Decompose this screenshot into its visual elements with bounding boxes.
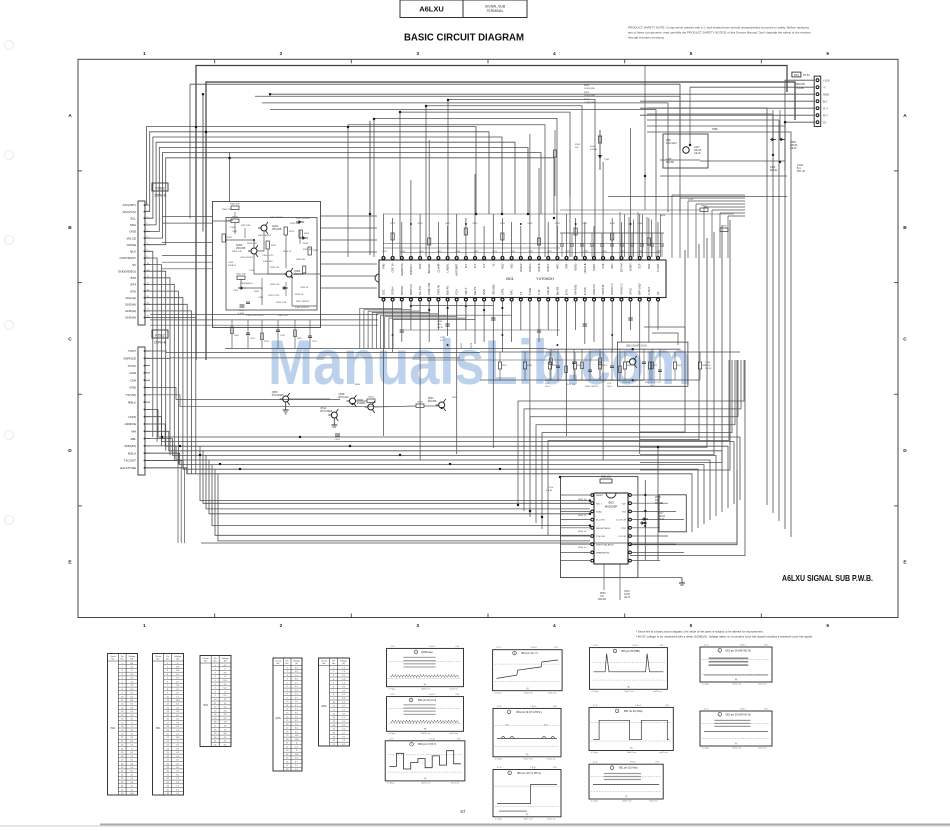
svg-text:R377: R377 — [461, 342, 463, 348]
svg-text:50mV 1 ms: 50mV 1 ms — [627, 752, 636, 754]
svg-text:(H): (H) — [424, 684, 427, 686]
svg-text:34: 34 — [121, 786, 123, 788]
resistor R545 — [428, 238, 431, 245]
svg-text:4.7: 4.7 — [130, 719, 133, 721]
svg-text:R550: R550 — [600, 593, 606, 595]
resistor — [231, 327, 234, 334]
svg-text:WHITE BALANCE: WHITE BALANCE — [596, 543, 614, 546]
svg-text:1 H-0.5: 1 H-0.5 — [630, 762, 636, 764]
svg-text:SPL-Y: SPL-Y — [464, 287, 468, 295]
wire IC pin — [419, 301, 421, 460]
junction — [501, 307, 503, 309]
svg-text:I501 pin 13 (-Y): I501 pin 13 (-Y) — [521, 652, 538, 655]
svg-text:P. MODE: P. MODE — [596, 536, 605, 538]
wire — [619, 564, 621, 600]
svg-text:8.0: 8.0 — [176, 774, 179, 776]
svg-text:(V): (V) — [526, 688, 529, 690]
svg-text:7: 7 — [333, 690, 334, 692]
wire — [321, 227, 378, 229]
svg-text:0.5V: 0.5V — [553, 706, 557, 708]
svg-text:ms/0.5 ms: ms/0.5 ms — [547, 818, 555, 820]
waveform 13 I501 pin 34 (YL PIP in) — [493, 767, 561, 820]
svg-text:(V): (V) — [295, 663, 298, 665]
svg-text:HPC: HPC — [555, 263, 559, 269]
svg-text:4: 4 — [167, 674, 168, 676]
svg-text:2.1: 2.1 — [224, 703, 227, 705]
svg-text:3: 3 — [122, 670, 123, 672]
waveform 12 I501 pin 26 (Hsw) — [589, 705, 673, 754]
svg-text:12: 12 — [333, 710, 335, 712]
wire — [145, 258, 157, 442]
wire — [292, 273, 320, 275]
svg-text:5.0: 5.0 — [295, 701, 298, 703]
svg-text:20: 20 — [121, 734, 123, 736]
svg-text:9.1: 9.1 — [130, 760, 133, 762]
wire — [447, 100, 449, 258]
svg-text:MS2000P: MS2000P — [605, 505, 617, 509]
wire — [360, 300, 402, 349]
svg-text:CTRL: CTRL — [500, 288, 504, 295]
svg-text:CLAMP: CLAMP — [436, 263, 440, 272]
svg-text:10: 10 — [121, 696, 123, 698]
wire IC pin — [657, 222, 659, 257]
cluster box Q510 — [617, 342, 688, 386]
svg-text:10: 10 — [167, 696, 169, 698]
svg-text:16: 16 — [121, 719, 123, 721]
svg-text:8.0: 8.0 — [295, 728, 298, 730]
svg-text:0.1 Vp-p: 0.1 Vp-p — [495, 758, 502, 760]
wire — [145, 271, 166, 451]
svg-text:R560: R560 — [355, 384, 361, 386]
svg-text:18: 18 — [121, 726, 123, 728]
wire — [150, 324, 378, 326]
wire — [561, 527, 591, 529]
component box right of I503 — [659, 495, 686, 532]
svg-text:0.2: 0.2 — [176, 719, 179, 721]
wire — [599, 349, 601, 380]
svg-text:1.2: 1.2 — [295, 694, 298, 696]
resistor R561 — [574, 228, 577, 235]
svg-text:W-CONT: W-CONT — [596, 520, 606, 522]
wire IC pin — [538, 168, 540, 257]
wire — [229, 152, 231, 202]
svg-text:21: 21 — [286, 743, 288, 745]
svg-text:No.: No. — [156, 659, 160, 661]
svg-text:16: 16 — [167, 719, 169, 721]
svg-text:8.0: 8.0 — [224, 672, 227, 674]
svg-text:9.1: 9.1 — [176, 678, 179, 680]
transistor Q506 — [339, 393, 357, 407]
svg-text:23: 23 — [167, 745, 169, 747]
wire — [660, 159, 700, 161]
resistor R311 10K — [237, 276, 245, 279]
wire bus — [145, 158, 554, 245]
svg-text:15: 15 — [121, 715, 123, 717]
svg-text:PCL/BJ: PCL/BJ — [796, 87, 805, 90]
wire corner — [640, 244, 699, 440]
junction — [465, 223, 467, 225]
wire — [632, 543, 677, 545]
svg-text:D306 1SS254: D306 1SS254 — [295, 307, 309, 309]
wire — [399, 112, 401, 257]
svg-text:4: 4 — [553, 51, 556, 57]
svg-text:0.2: 0.2 — [176, 707, 179, 709]
wire IC pin — [556, 226, 558, 257]
wire — [660, 175, 787, 177]
svg-text:CE-W: CE-W — [658, 519, 665, 521]
svg-text:MDL/BJ: MDL/BJ — [598, 599, 606, 601]
svg-text:No.: No. — [277, 663, 281, 665]
wire IC pin — [575, 218, 577, 257]
svg-text:YOUT: YOUT — [128, 349, 137, 353]
wire — [162, 261, 212, 263]
wire — [145, 284, 174, 460]
svg-text:B: B — [68, 225, 72, 231]
svg-text:12: 12 — [214, 707, 216, 709]
svg-text:3: 3 — [333, 675, 334, 677]
svg-text:R305 3.3K: R305 3.3K — [276, 302, 287, 304]
resistor R576 — [648, 362, 651, 369]
resistor — [565, 366, 568, 373]
capacitor C557 — [628, 317, 633, 319]
wire — [162, 216, 212, 218]
svg-text:R-Y: R-Y — [473, 263, 477, 268]
svg-text:6.2: 6.2 — [130, 707, 133, 709]
svg-text:1: 1 — [287, 667, 288, 669]
svg-text:6.2: 6.2 — [130, 771, 133, 773]
svg-text:15PG-B: 15PG-B — [154, 341, 167, 345]
svg-text:600 EL: 600 EL — [770, 169, 778, 172]
svg-text:16: 16 — [333, 725, 335, 727]
wire bus — [200, 465, 704, 524]
svg-text:NOISE: NOISE — [127, 243, 136, 247]
svg-text:GND: GND — [129, 230, 137, 234]
svg-text:0: 0 — [131, 722, 132, 724]
wire GND — [270, 93, 814, 95]
svg-text:TRAP-CW: TRAP-CW — [427, 282, 431, 295]
resistor R553 — [501, 233, 504, 240]
svg-text:0.5V: 0.5V — [764, 709, 768, 711]
svg-text:I501 pin 29 (VSYNC-N): I501 pin 29 (VSYNC-N) — [726, 713, 751, 716]
svg-text:2: 2 — [280, 623, 283, 629]
svg-text:34: 34 — [167, 786, 169, 788]
svg-text:COLOR: COLOR — [618, 536, 626, 538]
wire IC pin — [630, 128, 632, 257]
svg-text:7: 7 — [167, 685, 168, 687]
svg-text:Y2: Y2 — [491, 263, 495, 267]
ground — [331, 418, 337, 427]
svg-text:1.2: 1.2 — [295, 746, 298, 748]
wire bus — [218, 474, 590, 541]
wire bus — [194, 451, 722, 512]
svg-text:(V): (V) — [625, 796, 628, 798]
svg-text:36: 36 — [167, 793, 169, 795]
wire — [784, 122, 786, 170]
wire — [145, 265, 161, 447]
svg-text:5: 5 — [287, 682, 288, 684]
svg-text:B-Y2: B-Y2 — [565, 289, 569, 295]
svg-text:1.2: 1.2 — [130, 756, 133, 758]
wire IC pin — [428, 140, 430, 257]
svg-text:2SC/1413: 2SC/1413 — [666, 142, 677, 145]
svg-text:BLK-FIL: BLK-FIL — [446, 285, 450, 295]
wire — [145, 251, 153, 437]
svg-text:1 H-0.5: 1 H-0.5 — [429, 738, 435, 740]
resistor R307 — [222, 234, 225, 242]
svg-text:0.1 Vp-p: 0.1 Vp-p — [387, 783, 394, 785]
svg-text:7.5: 7.5 — [130, 715, 133, 717]
svg-text:28: 28 — [286, 769, 288, 771]
svg-text:Circuit: Circuit — [155, 655, 161, 658]
wire corner — [640, 238, 707, 447]
svg-text:WIDTH C: WIDTH C — [409, 284, 413, 295]
svg-text:C365: C365 — [440, 337, 446, 339]
svg-text:4.7: 4.7 — [342, 694, 345, 696]
capacitor — [630, 243, 634, 245]
resistor R565 — [611, 233, 614, 240]
resistor R573 — [573, 362, 576, 369]
svg-text:11.8: 11.8 — [176, 670, 180, 672]
wire — [289, 398, 330, 400]
svg-text:6: 6 — [215, 684, 216, 686]
wire IC pin — [511, 222, 513, 257]
junction — [351, 403, 353, 405]
svg-text:18: 18 — [214, 729, 216, 731]
svg-text:AF3C-FX: AF3C-FX — [592, 284, 596, 295]
svg-text:D302 1SS254: D302 1SS254 — [296, 218, 310, 220]
resistor R306 — [231, 206, 239, 209]
svg-text:5: 5 — [690, 623, 693, 629]
svg-text:9.1: 9.1 — [342, 721, 345, 723]
svg-text:R508: R508 — [584, 99, 590, 101]
wire — [651, 220, 653, 258]
wire — [393, 300, 475, 349]
svg-text:TXCONT: TXCONT — [124, 459, 137, 463]
svg-text:50mV 1 ms: 50mV 1 ms — [732, 748, 741, 750]
svg-text:0.7: 0.7 — [224, 718, 227, 720]
svg-text:3: 3 — [416, 51, 419, 57]
svg-text:5.0: 5.0 — [342, 690, 345, 692]
svg-text:R314 1/5: R314 1/5 — [283, 251, 292, 253]
svg-text:21: 21 — [121, 737, 123, 739]
svg-text:9.1: 9.1 — [130, 674, 133, 676]
resistor — [261, 333, 264, 340]
svg-text:4.5/?: 4.5/? — [440, 340, 446, 342]
wire — [554, 130, 556, 196]
svg-text:0.7: 0.7 — [176, 674, 179, 676]
svg-text:Q510 2SA673 (C-O): Q510 2SA673 (C-O) — [626, 344, 647, 347]
svg-text:0: 0 — [131, 726, 132, 728]
svg-text:PJ512: PJ512 — [155, 333, 165, 337]
wire — [400, 329, 560, 331]
svg-text:0.1 Vp-p: 0.1 Vp-p — [389, 733, 396, 735]
svg-text:21: 21 — [333, 744, 335, 746]
wire bus — [145, 142, 515, 225]
svg-text:4.7: 4.7 — [176, 681, 179, 683]
svg-text:C516: C516 — [548, 487, 554, 489]
svg-text:0.7: 0.7 — [176, 693, 179, 695]
wire — [611, 233, 613, 244]
svg-text:PRODUCT SAFETY NOTE: Component: PRODUCT SAFETY NOTE: Components marked w… — [628, 26, 809, 30]
wire IC pin — [602, 301, 604, 460]
junction — [392, 334, 394, 336]
svg-text:13: 13 — [286, 713, 288, 715]
svg-text:R330: R330 — [473, 223, 479, 225]
wire — [145, 453, 178, 543]
svg-text:HSEN: HSEN — [629, 263, 633, 270]
svg-text:R-Y1N: R-Y1N — [583, 287, 587, 295]
wire — [145, 409, 188, 437]
svg-text:R608: R608 — [660, 215, 666, 217]
wire — [480, 351, 740, 353]
svg-text:R321: R321 — [390, 223, 396, 225]
wire B-Y — [640, 100, 814, 102]
capacitor C547 — [537, 329, 541, 331]
svg-text:CH-2: CH-2 — [650, 385, 656, 387]
svg-text:10: 10 — [286, 701, 288, 703]
svg-text:ms/0.5 ms: ms/0.5 ms — [451, 783, 459, 785]
wire bus right — [647, 132, 791, 537]
svg-text:1: 1 — [143, 623, 146, 629]
svg-text:GND: GND — [482, 289, 486, 295]
svg-text:9: 9 — [122, 693, 123, 695]
svg-text:R307: R307 — [227, 237, 233, 239]
wire IC pin — [447, 226, 449, 257]
svg-text:26: 26 — [286, 762, 288, 764]
svg-text:3.3: 3.3 — [224, 714, 227, 716]
wire IC pin — [538, 301, 540, 342]
svg-text:(H): (H) — [424, 729, 427, 731]
wire — [499, 352, 501, 362]
svg-text:13: 13 — [121, 707, 123, 709]
svg-text:SDA: SDA — [130, 223, 136, 227]
svg-text:50mV 1 ms: 50mV 1 ms — [421, 783, 430, 785]
svg-text:6.2: 6.2 — [342, 729, 345, 731]
svg-text:1.2: 1.2 — [130, 778, 133, 780]
wire bus — [145, 153, 541, 239]
svg-text:No.: No. — [166, 659, 170, 661]
svg-text:22: 22 — [286, 746, 288, 748]
svg-text:BRIGHTNESS: BRIGHTNESS — [596, 528, 611, 530]
svg-text:GND(H): GND(H) — [125, 309, 136, 313]
svg-text:2SC458: 2SC458 — [428, 400, 437, 403]
svg-text:TRP1-W: TRP1-W — [436, 285, 440, 295]
svg-text:R506: R506 — [584, 92, 590, 94]
svg-text:MH: MH — [131, 430, 136, 434]
wire — [619, 212, 621, 257]
svg-text:(H): (H) — [627, 687, 630, 689]
wire — [480, 379, 700, 381]
amplifier cluster box — [213, 202, 321, 328]
wire — [561, 233, 563, 244]
wire — [145, 468, 184, 543]
svg-text:4.3/50: 4.3/50 — [238, 313, 245, 315]
svg-text:AFC: AFC — [610, 263, 614, 268]
svg-text:PM2: PM2 — [382, 263, 386, 269]
waveform 7 I501 pin 17 (B-Y) — [385, 738, 465, 784]
wire IC pin — [392, 301, 394, 352]
svg-text:13: 13 — [214, 710, 216, 712]
svg-text:TINT: TINT — [621, 528, 627, 530]
wire bus — [192, 446, 728, 508]
wire leg — [518, 360, 744, 505]
wire — [381, 300, 448, 349]
svg-text:30: 30 — [167, 771, 169, 773]
wire IC pin — [566, 214, 568, 257]
svg-text:(V): (V) — [130, 659, 133, 661]
svg-text:2.1: 2.1 — [130, 789, 133, 791]
wire -Y — [690, 86, 814, 88]
svg-text:Circuit: Circuit — [321, 659, 327, 662]
svg-text:1: 1 — [215, 665, 216, 667]
svg-text:ms/0.5 ms: ms/0.5 ms — [659, 752, 667, 754]
svg-text:100/10: 100/10 — [658, 516, 666, 518]
svg-text:GND(H): GND(H) — [125, 316, 136, 320]
wire — [376, 300, 438, 349]
svg-text:C528: C528 — [705, 362, 711, 364]
svg-text:0.2 V: 0.2 V — [704, 645, 709, 647]
waveform 15 I501 pin 29 (VSYNC-N) — [700, 709, 772, 750]
svg-text:9: 9 — [167, 693, 168, 695]
wire — [162, 222, 212, 224]
wire bus — [188, 437, 740, 500]
svg-text:20: 20 — [214, 737, 216, 739]
wire — [369, 121, 371, 255]
wire — [581, 233, 583, 244]
svg-text:0: 0 — [225, 669, 226, 671]
wire bus — [270, 110, 656, 212]
svg-text:CH-W: CH-W — [705, 368, 712, 370]
svg-text:3: 3 — [416, 623, 419, 629]
wire — [277, 320, 279, 349]
svg-text:9: 9 — [287, 697, 288, 699]
svg-text:0: 0 — [131, 670, 132, 672]
diode D304 — [300, 236, 308, 240]
wire — [699, 352, 701, 362]
capacitor — [246, 332, 250, 334]
wire leg — [530, 360, 738, 517]
connector PJ1 — [792, 72, 830, 126]
product safety note — [628, 26, 811, 40]
wire +12V top bus — [196, 66, 787, 361]
svg-text:B: B — [903, 225, 907, 231]
svg-text:14: 14 — [333, 717, 335, 719]
wire — [383, 243, 660, 245]
wire IC pin — [648, 301, 650, 342]
svg-text:0.5V: 0.5V — [456, 646, 460, 648]
svg-text:8.0: 8.0 — [295, 713, 298, 715]
svg-text:R308 3.3K: R308 3.3K — [232, 251, 242, 253]
svg-text:220(G)1/BJ: 220(G)1/BJ — [584, 95, 595, 97]
junction — [501, 334, 503, 336]
svg-text:9.1: 9.1 — [176, 793, 179, 795]
svg-text:R317: R317 — [313, 250, 319, 252]
svg-text:7.5: 7.5 — [130, 745, 133, 747]
svg-text:VDR(15): VDR(15) — [124, 444, 136, 448]
wire IC pin — [566, 301, 568, 436]
capacitor — [588, 369, 592, 371]
wire IC pin — [492, 214, 494, 257]
svg-text:PJ502: PJ502 — [155, 186, 165, 190]
wire — [560, 232, 664, 234]
wire — [560, 209, 700, 211]
wire — [145, 439, 196, 456]
wire leg — [536, 360, 735, 523]
svg-text:24: 24 — [167, 748, 169, 750]
wire — [561, 519, 591, 521]
svg-text:Voltage: Voltage — [222, 657, 230, 660]
svg-text:any of these components, read: any of these components, read carefully … — [628, 31, 811, 35]
